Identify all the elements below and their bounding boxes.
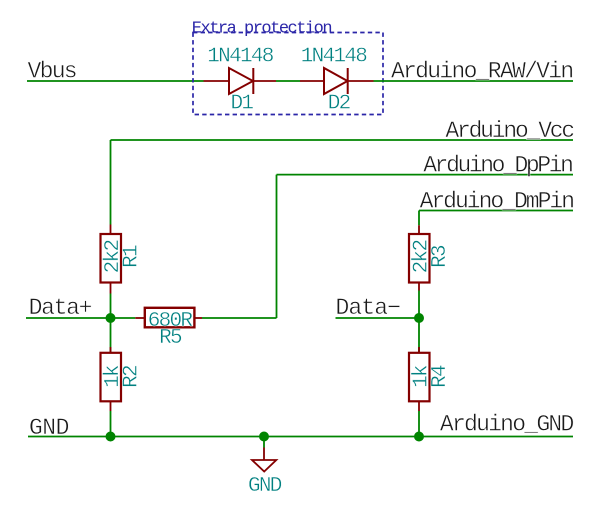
svg-text:Arduino_DmPin: Arduino_DmPin xyxy=(420,189,574,215)
wire Data- xyxy=(336,317,420,319)
svg-text:R4: R4 xyxy=(429,365,452,388)
svg-text:Arduino_Vcc: Arduino_Vcc xyxy=(445,118,574,144)
svg-text:Arduino_GND: Arduino_GND xyxy=(440,412,574,438)
wire DpPin to R5 xyxy=(202,317,277,319)
resistor R4 xyxy=(409,318,430,411)
svg-text:1N4148: 1N4148 xyxy=(207,45,274,68)
junction GND right node xyxy=(414,432,424,442)
svg-text:D2: D2 xyxy=(328,93,351,116)
wire R4 to GND xyxy=(418,411,420,437)
svg-text:1N4148: 1N4148 xyxy=(301,45,368,68)
svg-text:D1: D1 xyxy=(230,93,253,116)
wire DpPin vertical drop xyxy=(276,175,278,318)
svg-text:R2: R2 xyxy=(121,365,144,388)
diode D1 xyxy=(204,68,277,94)
ground symbol xyxy=(252,437,276,472)
wire Arduino_Vcc horizontal xyxy=(111,139,574,141)
svg-text:R1: R1 xyxy=(121,245,144,268)
resistor R1 xyxy=(101,225,122,294)
svg-text:Data+: Data+ xyxy=(29,295,92,321)
dashed note box Extra protection xyxy=(193,33,383,115)
junction GND left node xyxy=(106,432,116,442)
wire DmPin drop to R3 xyxy=(418,211,420,226)
svg-text:GND: GND xyxy=(29,415,69,441)
resistor R2 xyxy=(101,318,122,411)
svg-text:Arduino_RAW/Vin: Arduino_RAW/Vin xyxy=(391,59,573,85)
svg-text:Arduino_DpPin: Arduino_DpPin xyxy=(423,152,572,178)
wire Arduino_DmPin horizontal xyxy=(419,210,573,212)
svg-text:GND: GND xyxy=(248,475,282,498)
wire Vbus left segment xyxy=(27,80,204,82)
wire Vcc drop to R1 xyxy=(110,140,112,225)
svg-text:Data−: Data− xyxy=(336,295,401,321)
svg-text:R5: R5 xyxy=(159,327,182,350)
wire R2 to GND xyxy=(110,411,112,437)
junction GND middle node xyxy=(259,432,269,442)
diode D2 xyxy=(300,68,374,94)
wire R1 to Data+ node xyxy=(110,294,112,319)
junction Data- node xyxy=(414,313,424,323)
junction Data+ node xyxy=(106,313,116,323)
wire Arduino_DpPin horizontal xyxy=(277,174,574,176)
resistor R3 xyxy=(409,225,430,290)
wire between D1 and D2 xyxy=(276,80,300,82)
resistor R5 xyxy=(135,308,202,328)
wire Arduino_RAW/Vin segment xyxy=(374,80,574,82)
wire R3 to Data- node xyxy=(418,291,420,319)
wire Data+ xyxy=(26,317,135,319)
svg-text:Extra protection: Extra protection xyxy=(192,19,332,38)
svg-text:Vbus: Vbus xyxy=(28,59,76,85)
svg-text:R3: R3 xyxy=(429,245,452,268)
wire GND bus xyxy=(28,436,573,438)
